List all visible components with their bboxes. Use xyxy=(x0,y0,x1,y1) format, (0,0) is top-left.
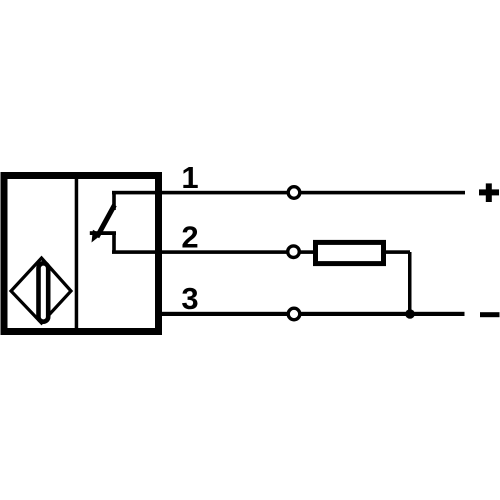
connector circle pin 3 xyxy=(288,308,300,320)
plus terminal xyxy=(479,183,499,202)
svg-text:3: 3 xyxy=(181,281,198,316)
sensor body outline xyxy=(4,176,159,332)
node junction dot xyxy=(405,309,415,319)
svg-text:1: 1 xyxy=(181,160,198,195)
wire from resistor to wire 3 xyxy=(408,252,412,314)
connector circle pin 1 xyxy=(288,187,300,199)
minus terminal xyxy=(480,312,500,317)
switch arrowhead xyxy=(92,230,102,243)
inductive sensor symbol: diamond xyxy=(11,258,71,323)
wire 3 xyxy=(155,312,465,316)
inductive sensor symbol: inner capsule xyxy=(39,263,49,321)
switch arm xyxy=(97,205,115,237)
connector circle pin 2 xyxy=(288,246,300,258)
wire 1 xyxy=(112,191,465,195)
load resistor xyxy=(316,242,384,263)
switch upper stub xyxy=(112,192,116,210)
sensor body divider xyxy=(75,179,79,328)
switch lower stub xyxy=(112,232,116,254)
switch contact stub xyxy=(90,231,116,235)
wire 2 xyxy=(112,250,410,254)
svg-text:2: 2 xyxy=(181,220,198,255)
